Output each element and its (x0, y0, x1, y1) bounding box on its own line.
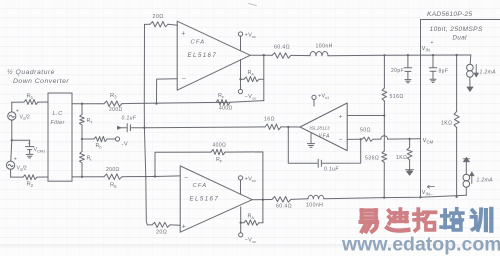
wire U3 plus input (347, 115, 384, 117)
wire node to V2 (11, 140, 12, 161)
stray mark (249, 4, 257, 6)
ground U3 (310, 133, 312, 144)
node brail divider (383, 196, 385, 198)
svg-text:VIN−: VIN− (422, 190, 433, 197)
inductor 100nH bottom (308, 195, 324, 198)
svg-text:+: + (431, 40, 434, 46)
svg-text:20Ω: 20Ω (156, 230, 167, 236)
ADC box outline (421, 20, 500, 198)
resistor RT (79, 115, 84, 126)
svg-text:VCM1: VCM1 (34, 147, 46, 154)
resistor RF1 (216, 100, 230, 106)
svg-text:100nH: 100nH (306, 203, 323, 209)
wire 50ohm hop (373, 138, 381, 140)
svg-text:+: + (182, 224, 187, 231)
watermark char pei (441, 209, 463, 230)
wire R3 to inverting node (122, 101, 264, 104)
svg-text:536Ω: 536Ω (365, 156, 379, 162)
wire U3 output (281, 126, 300, 128)
svg-text:−: − (339, 137, 343, 144)
svg-text:RF: RF (216, 157, 223, 164)
svg-text:−V: −V (245, 238, 253, 244)
node RA1 tap (239, 78, 241, 80)
ground below VCM1 (26, 153, 33, 155)
terminal +Vcc U1 (240, 36, 242, 51)
capacitor 8pF (432, 55, 434, 67)
wire R5 to U2 inverting (122, 175, 180, 178)
svg-text:+: + (181, 31, 186, 38)
inductor 100nH top (310, 52, 328, 56)
resistor R3 (104, 101, 122, 107)
svg-text:−: − (184, 175, 189, 182)
divider column upper (383, 55, 385, 88)
svg-text:100nH: 100nH (316, 44, 333, 50)
wire U3 minus input (347, 138, 361, 140)
resistor R1 (24, 99, 38, 104)
svg-text:1.2mA: 1.2mA (480, 70, 497, 76)
top rail (328, 54, 471, 57)
terminal +Vs U3 (313, 100, 315, 106)
svg-text:RA: RA (248, 214, 255, 221)
resistor RA2 (244, 220, 259, 225)
svg-text:VFA: VFA (319, 134, 331, 140)
svg-text:cc: cc (252, 178, 256, 183)
svg-text:R2: R2 (27, 182, 34, 189)
svg-text:R1: R1 (27, 94, 34, 101)
svg-text:200Ω: 200Ω (109, 107, 123, 113)
svg-text:8pF: 8pF (439, 69, 449, 75)
bottom signal line from LC (72, 176, 104, 178)
svg-text:+: + (14, 157, 18, 163)
resistor RF2 (211, 149, 225, 155)
terminal -V (115, 137, 119, 141)
svg-text:−V: −V (245, 94, 253, 100)
svg-text:RT: RT (87, 118, 94, 125)
svg-text:16Ω: 16Ω (264, 117, 275, 123)
resistor 1k upper (456, 55, 458, 112)
svg-text:cc: cc (252, 239, 256, 244)
node brail box (419, 196, 421, 198)
svg-text:L.C: L.C (53, 111, 64, 117)
wire to Vcm1 (12, 139, 30, 141)
svg-text:RF: RF (218, 93, 225, 100)
arrow 1k lower (406, 169, 414, 171)
svg-text:400Ω: 400Ω (213, 143, 227, 149)
svg-text:KAD5610P-25: KAD5610P-25 (427, 11, 472, 18)
svg-text:CFA: CFA (193, 183, 208, 189)
svg-text:CFA: CFA (191, 40, 206, 46)
svg-text:RA: RA (248, 70, 255, 77)
divider column middle (383, 101, 385, 151)
node Vcm 1k tap (408, 138, 410, 140)
svg-text:s1: s1 (325, 95, 329, 100)
wire U2 output to rail (252, 199, 272, 201)
svg-text:60.4Ω: 60.4Ω (274, 45, 290, 51)
svg-text:R5: R5 (110, 183, 117, 190)
wire U1 output to rail (250, 54, 272, 56)
integrator cap 0.1uF (288, 127, 317, 163)
wire RF2 to U2 output (225, 152, 263, 200)
watermark char xun (472, 209, 492, 231)
terminal +Vcc U2 (238, 176, 242, 180)
node rail 20pF (407, 54, 409, 56)
capacitor 0.1uF left (117, 126, 121, 129)
svg-text:+: + (16, 109, 20, 115)
source V1 (Vs/2) (8, 112, 16, 120)
svg-text:VCM: VCM (423, 138, 434, 145)
svg-text:+: + (339, 114, 343, 121)
resistor 16ohm (265, 124, 281, 130)
wire V1 bottom to node (11, 120, 13, 140)
node integrator tap (287, 126, 289, 128)
node U2 inverting (154, 175, 156, 177)
capacitor 20pF (407, 55, 409, 67)
svg-text:20pF: 20pF (391, 68, 404, 74)
svg-text:-V: -V (122, 142, 129, 148)
node brail 1k (455, 196, 457, 198)
resistor 50ohm (362, 137, 373, 141)
svg-text:1KΩ: 1KΩ (441, 121, 452, 127)
svg-text:VS/2: VS/2 (17, 165, 27, 172)
svg-text:0.1uF: 0.1uF (122, 116, 137, 122)
terminal -Vcc U2 (240, 207, 242, 233)
svg-text:10bit, 250MSPS: 10bit, 250MSPS (430, 26, 483, 33)
current source top (469, 55, 472, 64)
wire U1 output vertical (263, 55, 265, 100)
watermark char di (387, 209, 408, 231)
svg-text:Dual: Dual (453, 35, 468, 42)
node U2 output (262, 199, 264, 201)
svg-text:400Ω: 400Ω (219, 106, 233, 112)
ground 8pF (430, 78, 436, 80)
node divider tap (383, 114, 385, 116)
resistor 20ohm top (150, 22, 168, 28)
node U1 inverting (155, 102, 157, 104)
svg-text:−: − (182, 76, 187, 83)
svg-text:1KΩ: 1KΩ (396, 155, 407, 161)
resistor Rt lower (80, 152, 85, 164)
wire servo to bias node (144, 126, 265, 129)
svg-text:ISL28113: ISL28113 (310, 126, 330, 131)
svg-text:VIN: VIN (422, 46, 430, 53)
ground 20pF (405, 79, 411, 81)
resistor R2 (23, 175, 37, 180)
wire U2 output down (262, 200, 264, 223)
resistor R5 (104, 174, 122, 180)
resistor RA1 (244, 77, 259, 82)
node rail 8pF (432, 54, 434, 56)
op-amp U1 triangle (177, 21, 250, 90)
svg-text:516Ω: 516Ω (390, 94, 404, 100)
resistor 60.4 bottom (272, 197, 291, 203)
svg-text:1.2mA: 1.2mA (477, 178, 494, 184)
op-amp U3 triangle (300, 103, 347, 151)
node integrator top (360, 138, 362, 140)
wire V2 bottom to R2 (10, 169, 12, 177)
node RT mid (81, 138, 83, 140)
divider column lower (383, 163, 385, 198)
svg-text:½ Quadrature: ½ Quadrature (7, 68, 55, 76)
node rail 1k (455, 54, 457, 56)
svg-text:VS/2: VS/2 (20, 115, 30, 122)
resistor 536ohm (382, 151, 387, 163)
feedback line U2 (155, 152, 211, 176)
svg-text:cc: cc (252, 96, 256, 101)
node RT top (81, 103, 83, 105)
wire to inductor bottom (291, 198, 308, 201)
resistor 1k lower (409, 139, 411, 148)
wire to inductor top (291, 54, 310, 56)
wire noninverting bias vertical (144, 24, 152, 225)
watermark char yi (361, 210, 378, 232)
node U1 output (263, 54, 265, 56)
svg-text:Rb: Rb (96, 143, 102, 150)
svg-text:R3: R3 (110, 93, 117, 100)
svg-text:cc: cc (252, 34, 256, 39)
resistor 60.4 top (272, 53, 291, 59)
node bias-servo junction (143, 127, 145, 129)
battery VCM1 (29, 140, 31, 146)
svg-text:0.1uF: 0.1uF (324, 167, 339, 173)
resistor 20ohm bottom (152, 222, 170, 227)
svg-text:Down Converter: Down Converter (13, 78, 69, 85)
bottom rail (324, 195, 467, 198)
svg-text:Filter: Filter (51, 120, 65, 126)
node RA2 tap (240, 222, 242, 224)
svg-text:60.4Ω: 60.4Ω (276, 204, 292, 210)
node RT bottom (81, 176, 83, 178)
svg-text:50Ω: 50Ω (360, 128, 371, 134)
svg-text:200Ω: 200Ω (106, 167, 120, 173)
source V2 (Vs/2) (7, 161, 15, 169)
terminal -Vcc U1 (240, 60, 242, 90)
wire U1 inverting input (157, 79, 178, 104)
svg-text:20Ω: 20Ω (153, 14, 164, 20)
watermark char tuo (414, 209, 436, 230)
current source bottom (465, 187, 467, 195)
op-amp U2 triangle (180, 166, 252, 232)
wire V1 top to R1 (11, 102, 13, 112)
svg-text:www.edatop.com: www.edatop.com (341, 234, 500, 256)
node bias crossing lower (145, 176, 147, 178)
LC filter box (48, 93, 72, 181)
node rail divider (383, 54, 385, 56)
svg-text:EL5167: EL5167 (190, 196, 220, 203)
resistor 516ohm (382, 88, 387, 101)
top signal line from LC (72, 103, 104, 105)
svg-text:EL5167: EL5167 (188, 52, 218, 59)
svg-text:+: + (28, 142, 31, 147)
resistor Rb (94, 136, 107, 141)
node junction sources (11, 139, 13, 141)
